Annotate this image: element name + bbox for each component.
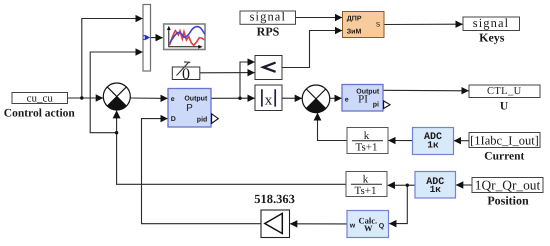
svg-text:1Qr_Qr_out: 1Qr_Qr_out (475, 177, 541, 192)
svg-text:w: w (349, 223, 356, 230)
svg-text:CTL_U: CTL_U (487, 86, 522, 97)
svg-text:Position: Position (487, 194, 529, 208)
svg-text:Ts+1: Ts+1 (356, 142, 378, 154)
svg-text:Control action: Control action (4, 108, 76, 120)
svg-text:S: S (376, 21, 381, 28)
svg-text:U: U (500, 100, 509, 112)
svg-text:pi: pi (373, 101, 379, 109)
svg-text:x: x (265, 92, 273, 108)
svg-text:pid: pid (197, 115, 208, 123)
svg-text:W: W (364, 223, 373, 233)
svg-text:518.363: 518.363 (254, 192, 295, 206)
svg-text:signal: signal (473, 16, 509, 30)
svg-text:Output: Output (184, 96, 208, 103)
svg-text:ДПР: ДПР (347, 15, 362, 22)
svg-text:Q: Q (379, 223, 385, 230)
svg-text:Keys: Keys (479, 31, 505, 45)
svg-text:e: e (171, 96, 175, 103)
svg-text:cu_cu: cu_cu (27, 93, 54, 105)
svg-text:P: P (186, 103, 193, 114)
svg-text:ЗиМ: ЗиМ (347, 29, 362, 36)
svg-text:D: D (171, 116, 176, 123)
svg-text:signal: signal (250, 10, 286, 24)
svg-text:RPS: RPS (257, 25, 280, 39)
svg-text:PI: PI (358, 94, 368, 106)
svg-text:1к: 1к (430, 184, 442, 195)
svg-text:k: k (363, 174, 369, 186)
svg-text:1к: 1к (427, 139, 439, 150)
svg-text:Current: Current (484, 150, 524, 162)
svg-text:e: e (345, 96, 349, 103)
svg-text:[1Iabc_I_out]: [1Iabc_I_out] (470, 133, 539, 147)
svg-text:Ts+1: Ts+1 (355, 185, 377, 197)
